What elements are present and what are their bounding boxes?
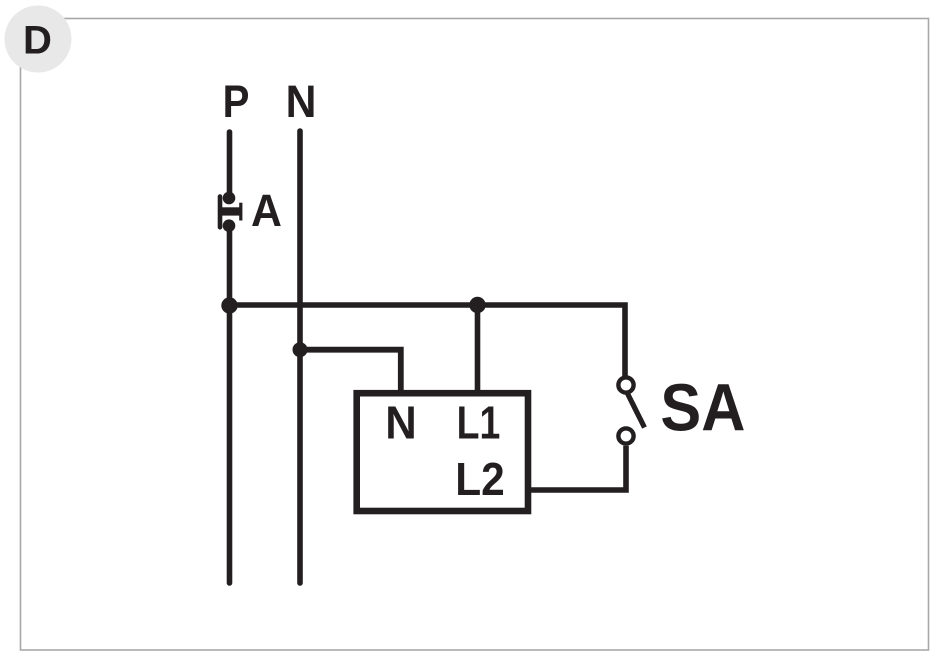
svg-text:N: N — [385, 397, 417, 449]
svg-text:D: D — [23, 19, 52, 63]
svg-text:L2: L2 — [455, 453, 505, 505]
svg-text:A: A — [251, 185, 282, 236]
panel label D circle — [5, 6, 72, 73]
svg-text:L1: L1 — [457, 397, 501, 449]
push-button A: top contact dot — [223, 192, 236, 205]
svg-text:N: N — [286, 76, 317, 127]
svg-text:SA: SA — [660, 371, 745, 446]
switch SA: bottom contact circle — [618, 428, 633, 443]
wire: P line upper segment — [227, 132, 233, 199]
push-button A: right contact bar — [239, 203, 242, 221]
svg-text:P: P — [223, 76, 250, 127]
wire: SA bottom to L2 terminal — [529, 446, 626, 490]
switch SA: blade — [628, 394, 645, 428]
junction at L1 branch — [469, 297, 485, 313]
wire: N branch to box — [300, 350, 401, 393]
switch SA: top contact circle — [618, 377, 633, 392]
wire: L1 branch down to box — [475, 305, 481, 393]
wire: P line lower segment — [227, 225, 233, 583]
junction on P line — [221, 297, 237, 313]
push-button A: crossbar — [218, 207, 240, 215]
wire: N line — [297, 131, 303, 583]
wire: main horizontal bus P to SA branch — [230, 305, 626, 377]
junction on N line — [293, 342, 308, 357]
push-button A: actuator bar — [218, 197, 223, 228]
device box U1 — [357, 393, 528, 511]
push-button A: bottom contact dot — [223, 219, 236, 232]
